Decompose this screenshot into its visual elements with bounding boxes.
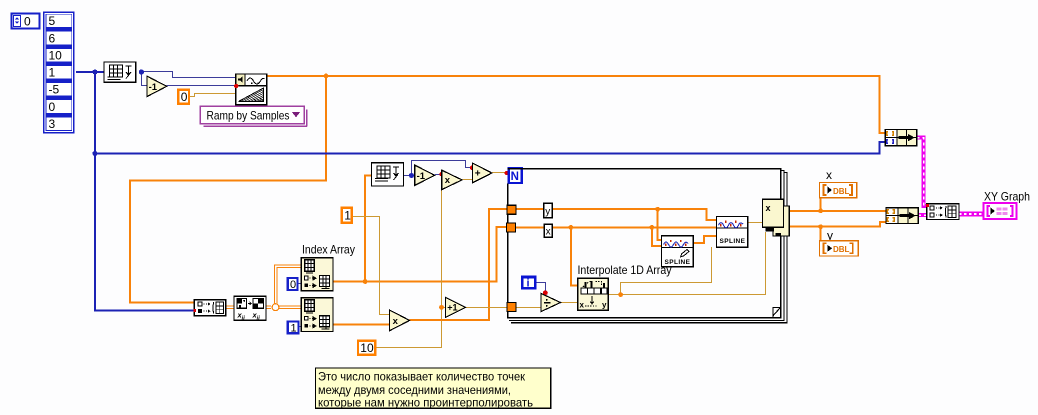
wire: Build Array 1 output 2D double line [226,305,271,307]
node: increment (+1 triangle) [446,298,466,318]
node: Transpose 2D Array [234,296,266,321]
node: Bundle 1 [885,130,916,146]
node: decrement 1 (-1 triangle) [147,76,167,97]
node: Spline Interpolation VI [717,217,748,248]
svg-text:x: x [393,316,399,327]
svg-text:x: x [445,175,451,186]
svg-text:10: 10 [360,341,374,355]
svg-text:Ramp by Samples: Ramp by Samples [207,108,290,122]
node: N terminal [509,168,522,183]
wire: branch down to Interpolate 1D Array input [571,227,578,285]
node: multiply 1 (x triangle) [442,170,462,189]
svg-text:0: 0 [49,100,56,114]
svg-text:DBL: DBL [833,187,850,196]
node: multiply 2 (x triangle) [390,310,410,331]
node: y DBL array indicator [819,241,858,256]
node: junction dot blue on array output [92,69,97,74]
wire: multiply 2 out up to loop tunnel 1 (orange thick) [410,209,507,320]
wire: 1 orange constant down to multiply 2 upper input (tan thin) [353,217,390,315]
node: Build Array 2 [926,204,959,220]
wire: Spline Interpolant out to Spline Interpolation (orange thick) [693,236,716,243]
svg-text:x: x [580,301,585,310]
node: array constant column [43,12,75,134]
wire: array constant to Array Size 1 (blue thick) [76,71,104,73]
wire: ramp output long top orange to Bundle 1 (orange thick) [267,76,886,133]
node: y wire label box [544,203,553,218]
svg-text:0: 0 [181,90,188,104]
svg-text:y: y [602,301,607,310]
node: Index Array 2 [301,298,333,332]
node: 1 constant orange [342,208,352,223]
wire: branch up to Array Size 2 (orange thick) [365,176,371,282]
wire: branch down to y indicator [820,227,822,241]
svg-text:N: N [511,171,519,183]
svg-text:XY Graph: XY Graph [984,190,1030,204]
wire: divide out to Interpolate 1D Array (tan thin) [561,302,578,304]
node: Interpolate 1D Array VI [578,278,609,310]
wire: x subVI out 2 to Bundle 2 (orange thick) [789,222,886,227]
svg-text:Index Array: Index Array [302,243,355,257]
node: junction dot blue long wire [92,151,97,156]
node: loop tunnel 1 [507,205,516,214]
svg-text:1: 1 [344,209,351,223]
wire: over the top branch to add node (blue thin) [412,161,473,176]
svg-text:0: 0 [290,279,296,291]
wire: tunnel 2 to Spline Interpolation second input (orange thick) [516,226,717,228]
node: x subVI on loop border [762,199,789,236]
wire: tunnel 3 to divide (tan thin) [516,307,541,309]
node: 0 constant blue [288,278,298,290]
node: 1 constant blue [288,322,299,334]
svg-text:SPLINE: SPLINE [720,238,746,245]
wire: add out to N terminal (tan thin) [492,172,508,174]
node: decrement 2 (-1 triangle) [415,165,435,185]
wire: i terminal to divide (blue thin) [536,283,545,292]
wire: 10 constant up to multiply 1 and +1 (tan thin) [377,187,442,348]
node: XY Graph terminal [983,203,1016,219]
wire: Interpolate out to x subVI bottom (tan thin) [608,232,765,295]
svg-text:DBL: DBL [833,245,850,254]
node: add (+ triangle) [473,163,492,183]
node: Array Size 2 [372,163,404,186]
node: Bundle 2 [886,208,918,224]
svg-text:10: 10 [49,48,63,62]
node: Index Array 1 [301,258,333,291]
node: x DBL array indicator [819,183,856,198]
svg-text:i: i [527,278,530,290]
node: 10 constant orange [358,341,375,355]
svg-text:5: 5 [49,14,56,28]
wire: array branch down-left to Build Array (blue thick) [95,71,194,311]
svg-text:x: x [826,168,832,182]
node: red coercion dot multiply 1 input [439,172,443,176]
svg-text:1: 1 [49,66,56,80]
svg-text:-1: -1 [149,82,158,93]
node: open circle junction on 2D wire [272,304,279,311]
node: i iteration terminal [522,277,535,288]
wire: Array Size 1 out to decrement (blue thin) [142,72,147,86]
svg-text:-1: -1 [417,171,426,182]
node: x wire label box [544,224,552,237]
wire: 2D wire from circle junction up to Index Array 1 [274,265,301,305]
wire: 0 constant to Index Array 1 (blue thin) [298,283,302,285]
node: for loop frame stacked borders [507,168,788,323]
wire: Index Array 2 out to multiply 2 (orange thick) [333,324,390,326]
wire: tunnel 1 to Spline Interpolation upper input (orange thick) [516,209,717,220]
svg-text:-5: -5 [49,83,60,97]
wire: 1 constant to Index Array 2 (blue thin) [299,326,302,328]
node: red coercion dot on ramp middle input [234,84,238,88]
wire: long blue array wire to Bundle 1 (blue thick) [95,142,885,154]
wire: Array Size 2 out to decrement 2 (blue thin) [403,175,414,177]
wire: Index Array 1 out to loop tunnel 2 (orange thick) [333,227,507,282]
node: Build Array 1 [194,300,226,316]
node: red coercion dot N input [504,171,508,175]
svg-text:Interpolate 1D Array: Interpolate 1D Array [578,263,672,277]
node: Ramp Pattern VI [236,74,267,105]
wire: ramp output branch down to Build Array (orange thick) [130,76,326,302]
node: Ramp by Samples dropdown [200,106,307,126]
node: dog-ear folded corner bottom-right of loop [773,308,780,317]
svg-text:3: 3 [49,117,56,131]
svg-text:x: x [546,227,551,238]
svg-text:1: 1 [291,322,297,334]
node: junction dot orange ramp branch [324,74,329,79]
node: Array Size 1 [104,62,136,82]
wire: 0 constant to Ramp (tan thin) [190,94,236,97]
wire: decrement 1 out to Ramp (blue thin) [167,85,236,87]
wire: multiply 1 out to add (tan thin) [462,179,472,181]
wire: branch down to Spline Interpolant lower input [652,227,662,246]
wire: Array Size 1 out to Ramp top input (blue thin) [142,72,236,78]
node: red coercion dot divide input [543,290,548,295]
node: Spline Interpolant VI (with pencil) [662,236,694,267]
node: red coercion dot add input [470,166,474,170]
node: 0 constant (orange DBL) [178,90,189,104]
wire: Interpolate out branch up to Spline Interpolation bottom (tan thin) [621,247,712,294]
svg-text:y: y [545,206,550,217]
wire: decrement 2 out to multiply 1 (blue thin) [435,174,442,176]
wire: branch up to x indicator [820,198,822,211]
svg-text:между двумя соседними значения: между двумя соседними значениями, [318,384,511,397]
svg-text:6: 6 [49,31,56,45]
wire: increment out to tunnel 3 (tan thin) [466,307,508,309]
wire: Build Array 2 output hatched magenta to XY Graph [959,212,983,217]
wire: Bundle 2 output cluster wire magenta dashed [918,213,927,217]
svg-text:+: + [475,169,481,180]
node: loop tunnel 2 [507,223,516,232]
node: array index box with spinner [12,14,40,29]
node: loop tunnel 3 [507,303,516,312]
node: divide triangle [541,293,561,311]
svg-text:+1: +1 [447,303,457,313]
wire: Bundle 1 output cluster wire magenta dashed down to Build Array 2 [917,138,927,206]
svg-text:которые нам нужно проинтерполи: которые нам нужно проинтерполировать [318,397,533,410]
wire: 2D wire from circle junction right to Index Array 2 [279,305,302,307]
wire: x subVI out 1 to Bundle 2 (orange thick) [789,210,886,212]
wire: branch down to Spline Interpolant upper input [658,209,662,240]
wire: Spline Interpolation out to x subVI (tan thin) [748,222,763,224]
svg-text:Это число показывает количеств: Это число показывает количество точек [318,371,526,384]
svg-text:0: 0 [24,15,31,29]
svg-text:x: x [766,203,771,213]
node: yellow comment note [315,368,550,410]
svg-text:SPLINE: SPLINE [665,259,691,266]
